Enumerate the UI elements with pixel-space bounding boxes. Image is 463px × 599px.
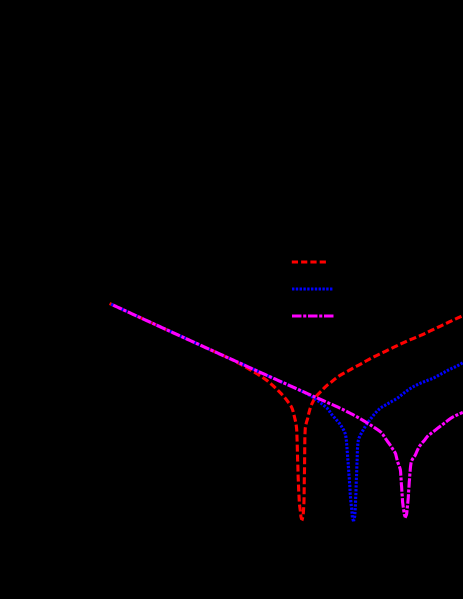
magenta dash-dot resonance curve (series 3, notch at x~405)	[113, 305, 463, 516]
legend sample: magenta dash-dot line	[292, 314, 334, 317]
blue dotted resonance curve (series 2, notch at x~354)	[111, 304, 463, 520]
legend sample: blue dotted line	[292, 287, 334, 290]
red dashed resonance curve (series 1, notch at x~302)	[110, 304, 463, 520]
legend sample: red dashed line	[292, 260, 326, 263]
